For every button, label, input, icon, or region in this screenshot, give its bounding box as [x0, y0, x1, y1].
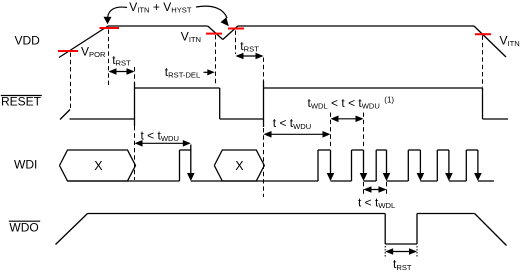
svg-text:VPOR​: VPOR​ [81, 44, 106, 59]
svg-text:t < tWDL​: t < tWDL​ [358, 195, 395, 210]
dotted tick left of WDO tRST [384, 246, 386, 258]
dashed guide from V_POR crossing [70, 53, 72, 111]
svg-text:VDD: VDD [15, 34, 41, 48]
dashed guide above WDI pulse2 fall [363, 113, 365, 150]
WDI pulse1 falling edge with arrow [330, 150, 332, 174]
svg-text:(1): (1) [384, 95, 394, 104]
WDO rising edge [416, 214, 418, 245]
curved leader arrow right [196, 6, 227, 18]
WDI pulse6 rising edge [465, 150, 467, 181]
VDD waveform ramp-up [59, 26, 108, 58]
WDI low segment after pulse6 [478, 180, 494, 182]
svg-text:tRST-DEL​: tRST-DEL​ [165, 65, 200, 80]
VDD waveform final fall [474, 26, 506, 57]
WDI pulse2 falling edge with arrow [363, 150, 365, 174]
arrow t<tWDL [364, 186, 387, 193]
RESET low segment 2 [220, 118, 264, 120]
svg-text:tRST​: tRST​ [240, 39, 259, 54]
WDI pulse6 top [466, 149, 478, 151]
WDI pulse2 top [352, 149, 364, 151]
WDI low segment 1 [68, 180, 180, 182]
dashed guide from V_ITN final crossing [482, 36, 484, 88]
WDI low segment after pulse5 [449, 180, 466, 182]
svg-text:tWDL​ < t < tWDU​: tWDL​ < t < tWDU​ [308, 96, 380, 111]
svg-text:VITN​: VITN​ [500, 34, 520, 49]
svg-text:RESET: RESET [1, 94, 42, 108]
svg-text:VITN​: VITN​ [181, 29, 201, 44]
arrow t<tWDU 1 [135, 140, 191, 147]
RESET rising edge 2 [263, 81, 265, 127]
RESET falling edge 2 [482, 88, 484, 119]
WDI pulse4 falling edge with arrow [419, 150, 421, 174]
WDI pulse4 rising edge [407, 150, 409, 181]
dashed guide above WDI pulse1 fall [330, 113, 332, 150]
RESET low segment 3 [483, 118, 509, 120]
WDI low segment 2 [191, 180, 318, 182]
WDI pulse6 falling edge with arrow [477, 150, 479, 174]
WDO end slant [475, 214, 507, 246]
red tick V_ITN+V_HYST crossing 2 [228, 28, 244, 30]
arrow tRST-DEL [204, 71, 210, 73]
arrow t<tWDU 2 [264, 131, 331, 138]
arrow tRST 2 [236, 53, 264, 60]
WDO low segment [385, 243, 417, 245]
svg-text:t < tWDU​: t < tWDU​ [273, 116, 311, 131]
WDO high segment 1 [88, 213, 386, 215]
VDD waveform top segment 1 [108, 25, 208, 27]
svg-text:X: X [94, 159, 103, 173]
arrow tRST 3 [385, 248, 417, 255]
dotted tick right of WDO tRST [416, 246, 418, 258]
dashed guide below RESET rise 1 [134, 126, 136, 180]
VDD waveform dip up-slope [223, 26, 238, 40]
svg-text:WDO: WDO [9, 220, 38, 234]
WDI pulse0 rising edge [179, 150, 181, 181]
dashed guide below WDI pulse3 fall [386, 182, 388, 195]
WDI pulse3 rising edge [375, 150, 377, 181]
RESET rising edge 1 [134, 82, 136, 126]
WDI low segment after pulse1 [331, 180, 352, 182]
WDI low segment after pulse4 [420, 180, 437, 182]
RESET falling edge 1 [219, 88, 221, 119]
dashed guide from VITN+VHYST crossing 2 [235, 31, 237, 55]
WDO start slant [56, 214, 88, 245]
arrow tWDL<t<tWDU [331, 116, 364, 123]
dashed guide from VITN+VHYST crossing 1 [108, 30, 110, 87]
WDO falling edge [384, 214, 386, 245]
red tick V_POR crossing [58, 50, 78, 52]
WDI pulse1 rising edge [317, 150, 319, 181]
WDI pulse5 rising edge [436, 150, 438, 181]
red tick V_ITN dip crossing [206, 33, 222, 35]
dashed guide above RESET rise 1 [134, 67, 136, 82]
WDI pulse0 falling edge with arrow [190, 145, 192, 175]
WDI hexagon 2 (don't care X) [214, 150, 264, 181]
curved leader arrow left [108, 7, 127, 17]
VDD waveform top segment 2 [238, 25, 474, 27]
WDI pulse1 top [318, 149, 331, 151]
VDD waveform dip down-slope [208, 26, 223, 40]
WDI hexagon 1 (don't care X) [60, 150, 136, 181]
RESET high segment 2 [264, 87, 483, 89]
svg-text:WDI: WDI [14, 158, 37, 172]
svg-text:tRST​: tRST​ [112, 53, 131, 68]
WDI low segment after pulse2 [364, 180, 377, 182]
dashed guide above RESET rise 2 [263, 58, 265, 82]
WDI pulse2 rising edge [351, 150, 353, 181]
dashed guide from V_ITN dip crossing [215, 35, 217, 85]
red tick V_ITN+V_HYST crossing 1 [100, 27, 120, 29]
WDI pulse0 top [180, 149, 191, 151]
WDI pulse3 falling edge with arrow [386, 150, 388, 174]
WDI pulse5 top [437, 149, 449, 151]
arrow tRST 1 [109, 68, 135, 75]
RESET low segment 1 [70, 118, 135, 120]
WDO high segment 2 [417, 213, 475, 215]
svg-text:tRST​: tRST​ [393, 257, 412, 272]
WDI pulse3 top [376, 149, 386, 151]
dashed guide below RESET rise 2 [263, 128, 265, 197]
RESET start slant tick [60, 110, 70, 120]
svg-text:t < tWDU​: t < tWDU​ [141, 128, 179, 143]
RESET high segment 1 [135, 87, 220, 89]
WDI pulse5 falling edge with arrow [448, 150, 450, 174]
dashed guide below WDI pulse2 fall [363, 182, 365, 196]
red tick V_ITN final crossing [475, 33, 491, 35]
WDI pulse4 top [408, 149, 420, 151]
WDI low segment after pulse3 [387, 180, 409, 182]
svg-text:VITN​ + VHYST​: VITN​ + VHYST​ [129, 0, 192, 15]
svg-text:X: X [235, 159, 244, 173]
